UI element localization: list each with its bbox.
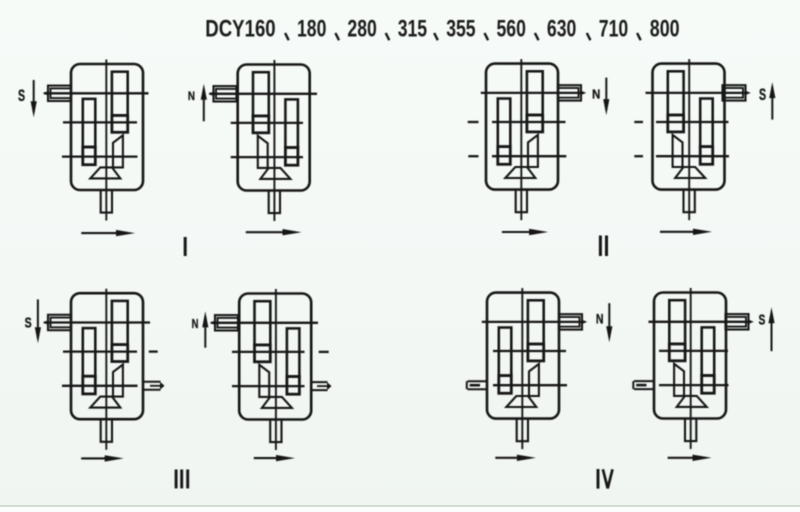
intermediate axis line	[231, 122, 303, 124]
rotation arrow (up)	[771, 312, 773, 351]
rotation arrow (down)	[37, 299, 39, 338]
axis dash outside left (a3)	[468, 155, 478, 157]
side shaft stub	[634, 380, 654, 382]
input axis arrowhead	[208, 91, 214, 96]
axis dash outside left (a3)	[634, 155, 643, 157]
low-speed axis line	[656, 155, 729, 157]
low-speed axis line	[62, 385, 138, 387]
axis dash outside right (a2)	[319, 351, 329, 353]
svg-text:280: 280	[347, 15, 376, 43]
side shaft stub	[310, 381, 328, 383]
schematic 4: gearbox	[653, 59, 725, 220]
scan edge line	[0, 505, 800, 507]
schematic 3: gearbox	[486, 59, 558, 220]
rotation arrow (up)	[204, 316, 206, 347]
enumeration comma	[535, 33, 539, 40]
enumeration comma	[335, 33, 339, 40]
input axis arrowhead	[210, 320, 216, 325]
svg-text:710: 710	[599, 15, 628, 43]
output rotation arrow	[502, 231, 541, 233]
rotation arrow (up)	[771, 87, 773, 120]
schematic 1: gearbox	[71, 60, 143, 221]
intermediate axis line	[656, 121, 729, 123]
low-speed axis line	[492, 155, 566, 157]
enumeration comma	[485, 33, 489, 40]
enumeration comma	[637, 33, 641, 40]
label III	[175, 470, 178, 489]
svg-text:355: 355	[446, 15, 476, 43]
schematic 7: gearbox	[487, 288, 559, 449]
intermediate axis line	[63, 350, 137, 352]
input shaft stub	[214, 86, 237, 101]
enumeration comma	[386, 33, 390, 40]
svg-text:S: S	[25, 314, 32, 331]
svg-text:S: S	[18, 86, 25, 105]
input shaft stub	[726, 314, 749, 329]
low-speed axis line	[232, 385, 305, 387]
input axis line	[211, 322, 318, 324]
output rotation arrow	[495, 457, 529, 459]
schematic 6: gearbox	[239, 289, 311, 450]
low-speed axis line	[231, 156, 303, 158]
svg-text:180: 180	[297, 15, 326, 43]
input axis line	[44, 321, 150, 323]
input shaft stub	[215, 315, 238, 330]
rotation arrow (down)	[605, 78, 607, 111]
output rotation arrow	[81, 232, 128, 234]
input axis line	[482, 321, 585, 323]
rotation arrow (down)	[33, 80, 35, 112]
intermediate axis line	[63, 121, 137, 123]
rotation arrow (down)	[608, 303, 610, 337]
input axis line	[646, 92, 748, 94]
low-speed axis line	[62, 155, 138, 157]
input axis arrowhead	[43, 91, 49, 96]
svg-text:S: S	[759, 310, 766, 328]
input axis arrowhead	[580, 91, 586, 96]
svg-text:315: 315	[398, 15, 428, 43]
input shaft stub	[48, 86, 71, 101]
input axis line	[481, 92, 582, 94]
svg-text:560: 560	[497, 15, 526, 43]
axis dash outside left (a2)	[634, 121, 643, 123]
enumeration comma	[285, 33, 289, 40]
svg-text:800: 800	[650, 15, 680, 42]
side shaft stub	[468, 380, 488, 382]
output rotation arrow	[660, 231, 705, 233]
input axis arrowhead	[745, 91, 751, 96]
svg-text:630: 630	[547, 15, 576, 43]
axis dash outside right (a2)	[149, 350, 158, 352]
svg-text:N: N	[592, 87, 600, 102]
rotation arrow (up)	[203, 89, 205, 122]
output rotation arrow	[668, 457, 705, 459]
schematic 8: gearbox	[654, 288, 726, 449]
input shaft stub	[723, 85, 746, 100]
svg-text:N: N	[188, 90, 195, 103]
input axis line	[210, 93, 318, 95]
input shaft stub	[48, 315, 71, 330]
low-speed axis line	[493, 384, 567, 386]
side shaft stub	[143, 381, 161, 383]
enumeration comma	[434, 33, 438, 40]
svg-text:N: N	[192, 318, 199, 332]
intermediate axis line	[492, 121, 566, 123]
output rotation arrow	[81, 457, 117, 459]
output rotation arrow	[254, 457, 288, 459]
input shaft stub	[559, 314, 582, 329]
label II	[599, 236, 602, 257]
svg-text:N: N	[596, 311, 604, 327]
label I	[184, 237, 187, 256]
output rotation arrow	[246, 231, 295, 233]
input axis line	[649, 321, 749, 323]
intermediate axis line	[659, 350, 728, 352]
svg-text:DCY160: DCY160	[205, 14, 275, 42]
intermediate axis line	[493, 350, 566, 352]
axis dash outside left (a2)	[468, 121, 479, 123]
input axis line	[44, 92, 149, 94]
input axis arrowhead	[748, 319, 754, 324]
enumeration comma	[587, 33, 591, 40]
low-speed axis line	[659, 384, 729, 386]
label IV	[597, 469, 600, 489]
svg-text:S: S	[759, 84, 766, 103]
schematic 2: gearbox	[238, 60, 310, 221]
input shaft stub	[558, 85, 581, 100]
input axis arrowhead	[581, 320, 587, 325]
intermediate axis line	[232, 351, 305, 353]
schematic 5: gearbox	[71, 289, 143, 450]
input axis arrowhead	[43, 320, 49, 325]
